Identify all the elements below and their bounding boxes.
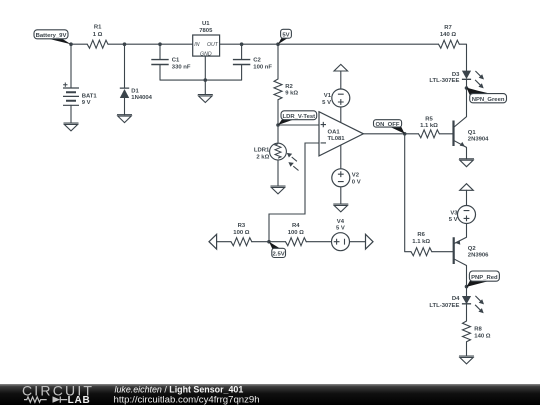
- svg-text:LDR_V-Test: LDR_V-Test: [282, 114, 315, 120]
- svg-text:140 Ω: 140 Ω: [440, 32, 456, 38]
- svg-text:2.5V: 2.5V: [273, 252, 285, 258]
- svg-text:0 V: 0 V: [352, 180, 361, 186]
- svg-text:140 Ω: 140 Ω: [474, 333, 490, 339]
- svg-text:5 V: 5 V: [336, 226, 345, 232]
- svg-text:C2: C2: [253, 58, 261, 64]
- svg-text:V4: V4: [337, 219, 345, 225]
- svg-text:C1: C1: [172, 58, 180, 64]
- svg-text:PNP_Red: PNP_Red: [471, 275, 498, 281]
- svg-text:http://circuitlab.com/cy4frrg7: http://circuitlab.com/cy4frrg7qnz9h: [114, 395, 260, 405]
- svg-text:U1: U1: [202, 21, 210, 27]
- svg-text:luke.eichten / Light Sensor_40: luke.eichten / Light Sensor_401: [115, 385, 244, 395]
- svg-text:R4: R4: [292, 223, 300, 229]
- svg-text:100 nF: 100 nF: [253, 65, 272, 71]
- svg-text:100 Ω: 100 Ω: [233, 230, 249, 236]
- svg-text:D1: D1: [131, 89, 139, 95]
- svg-text:2N3904: 2N3904: [468, 137, 489, 143]
- svg-text:9 V: 9 V: [82, 100, 91, 106]
- svg-text:BAT1: BAT1: [82, 94, 98, 100]
- svg-text:D3: D3: [452, 72, 460, 78]
- svg-text:R3: R3: [238, 223, 246, 229]
- svg-text:V1: V1: [324, 93, 332, 99]
- svg-text:1.1 kΩ: 1.1 kΩ: [412, 239, 430, 245]
- svg-text:100 Ω: 100 Ω: [288, 230, 304, 236]
- svg-text:V3: V3: [450, 210, 458, 216]
- svg-text:IN: IN: [194, 42, 199, 48]
- svg-text:1N4004: 1N4004: [131, 95, 152, 101]
- svg-text:V2: V2: [352, 173, 360, 179]
- svg-text:LTL-307EE: LTL-307EE: [429, 78, 459, 84]
- svg-text:2 kΩ: 2 kΩ: [256, 154, 269, 160]
- svg-text:9 kΩ: 9 kΩ: [285, 91, 298, 97]
- svg-text:NPN_Green: NPN_Green: [472, 97, 505, 103]
- svg-text:Q2: Q2: [468, 246, 477, 252]
- svg-text:5 V: 5 V: [449, 217, 458, 223]
- svg-text:7805: 7805: [199, 28, 213, 34]
- svg-text:R1: R1: [94, 25, 102, 31]
- svg-text:OA1: OA1: [328, 129, 341, 135]
- svg-text:GND: GND: [200, 51, 212, 57]
- svg-text:LAB: LAB: [68, 395, 91, 405]
- svg-text:Battery_9V: Battery_9V: [36, 33, 67, 39]
- svg-text:5 V: 5 V: [322, 100, 331, 106]
- svg-text:LDR1: LDR1: [254, 148, 270, 154]
- svg-text:2N3906: 2N3906: [468, 253, 489, 259]
- svg-text:1 Ω: 1 Ω: [93, 32, 103, 38]
- svg-text:R5: R5: [425, 117, 433, 123]
- svg-text:R2: R2: [285, 84, 293, 90]
- svg-text:ON_OFF: ON_OFF: [376, 122, 400, 128]
- svg-text:R6: R6: [417, 232, 425, 238]
- svg-text:R7: R7: [444, 25, 452, 31]
- svg-text:TL081: TL081: [328, 136, 346, 142]
- svg-text:LTL-307EE: LTL-307EE: [429, 303, 459, 309]
- svg-text:D4: D4: [452, 296, 460, 302]
- svg-text:Q1: Q1: [468, 130, 477, 136]
- svg-text:R8: R8: [474, 327, 482, 333]
- svg-text:5V: 5V: [282, 33, 289, 39]
- svg-text:OUT: OUT: [207, 42, 219, 48]
- svg-text:1.1 kΩ: 1.1 kΩ: [420, 123, 438, 129]
- svg-text:330 nF: 330 nF: [172, 65, 191, 71]
